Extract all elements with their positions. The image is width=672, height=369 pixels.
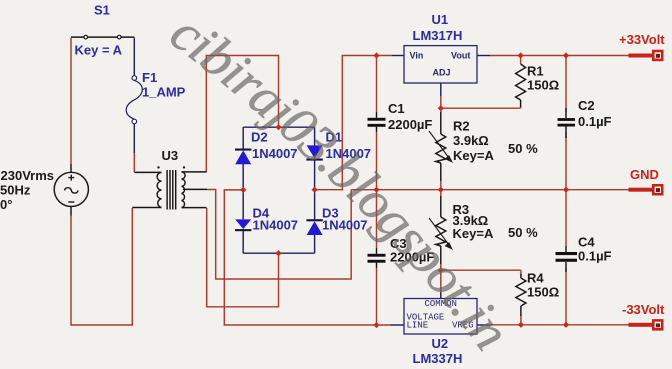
svg-text:150Ω: 150Ω xyxy=(527,78,559,93)
svg-text:U1: U1 xyxy=(432,12,449,27)
svg-text:0.1µF: 0.1µF xyxy=(578,249,612,264)
svg-text:0.1µF: 0.1µF xyxy=(578,114,612,129)
svg-text:F1: F1 xyxy=(142,70,157,85)
svg-text:S1: S1 xyxy=(94,3,110,18)
svg-text:C4: C4 xyxy=(578,235,595,250)
svg-text:-33Volt: -33Volt xyxy=(622,302,665,317)
svg-text:1N4007: 1N4007 xyxy=(253,218,299,233)
svg-text:LM317H: LM317H xyxy=(413,28,463,43)
svg-text:50 %: 50 % xyxy=(508,225,538,240)
svg-text:U3: U3 xyxy=(162,148,179,163)
svg-text:230Vrms: 230Vrms xyxy=(1,168,55,183)
svg-text:Key = A: Key = A xyxy=(75,43,123,58)
svg-text:Vout: Vout xyxy=(451,51,470,61)
svg-text:0°: 0° xyxy=(0,197,12,212)
svg-text:LINE: LINE xyxy=(407,321,429,331)
svg-text:U2: U2 xyxy=(432,336,449,351)
svg-text:C1: C1 xyxy=(388,101,405,116)
svg-text:Key=A: Key=A xyxy=(453,226,494,241)
svg-text:Key=A: Key=A xyxy=(453,148,494,163)
svg-text:+33Volt: +33Volt xyxy=(619,32,665,47)
svg-text:50 %: 50 % xyxy=(508,141,538,156)
svg-text:R2: R2 xyxy=(453,119,470,134)
svg-text:50Hz: 50Hz xyxy=(0,183,31,198)
svg-text:LM337H: LM337H xyxy=(413,351,463,366)
svg-text:Vin: Vin xyxy=(410,51,424,61)
svg-text:3.9kΩ: 3.9kΩ xyxy=(453,133,489,148)
svg-text:R4: R4 xyxy=(527,271,544,286)
svg-text:2200µF: 2200µF xyxy=(388,117,432,132)
svg-text:150Ω: 150Ω xyxy=(527,285,559,300)
svg-text:C2: C2 xyxy=(578,98,595,113)
svg-text:R1: R1 xyxy=(527,64,544,79)
svg-text:GND: GND xyxy=(630,167,659,182)
svg-text:ADJ: ADJ xyxy=(433,68,451,78)
svg-text:1_AMP: 1_AMP xyxy=(142,85,186,100)
